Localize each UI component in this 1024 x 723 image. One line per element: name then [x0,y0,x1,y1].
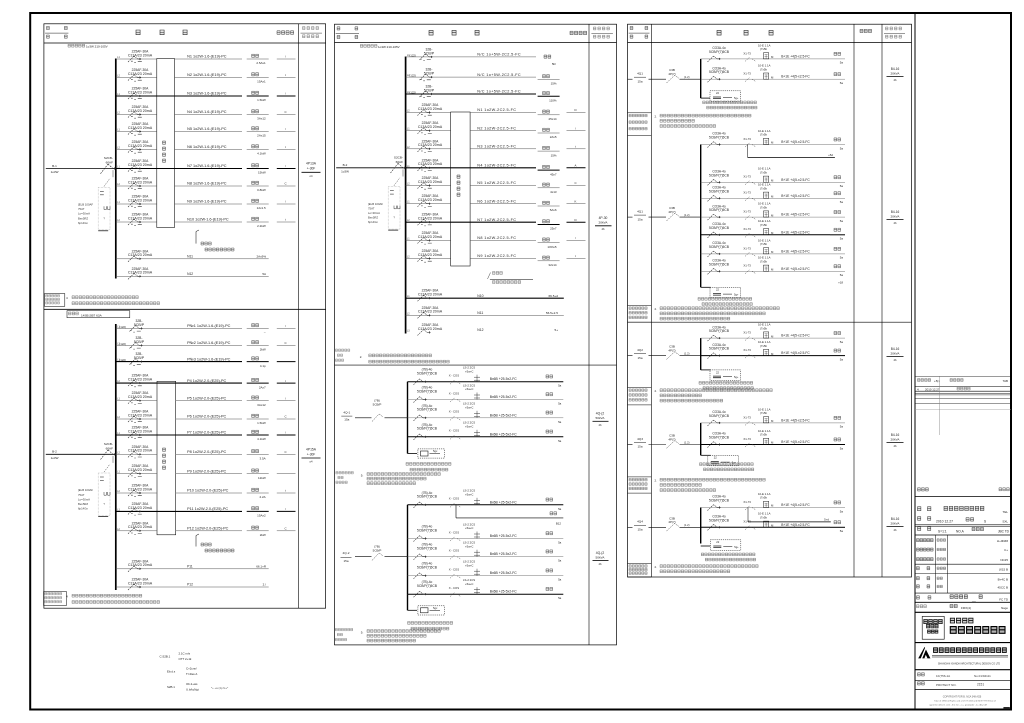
load N6 [247,145,296,156]
svg-text:5a: 5a [840,219,844,223]
panel C load N1 [544,55,556,66]
svg-text:C13A/23 20mA: C13A/23 20mA [128,413,153,417]
load N9 [247,199,296,210]
svg-text:5a: 5a [558,559,562,563]
svg-text:(7x5b: (7x5b [760,67,767,71]
svg-text:C13A/23 20mA: C13A/23 20mA [418,162,443,166]
svg-text:U.b/kcNgt: U.b/kcNgt [186,688,199,692]
panel B wire spec P11 [187,507,228,511]
panel B wire spec P10 [187,489,229,493]
panel A feeder [46,164,116,174]
svg-text:2Ax5: 2Ax5 [550,135,557,139]
svg-text:B+1E +4(5-x2.5-FC: B+1E +4(5-x2.5-FC [781,213,810,217]
svg-text:4x13: 4x13 [550,190,557,194]
svg-text:S2CB-: S2CB- [104,156,113,160]
svg-text:(7x5b: (7x5b [760,242,767,246]
panel C branch N8 wire [406,183,536,186]
svg-text:+5a+C: +5a+C [465,424,473,428]
svg-text:N1 1o2W-1.6-(E19)-PC: N1 1o2W-1.6-(E19)-PC [187,55,227,59]
panel B load P11 [247,507,296,518]
svg-text:C13A/23 20mA: C13A/23 20mA [418,180,443,184]
panel D s2 motor branch 5 [701,219,845,240]
panel D section3 bus [700,338,702,370]
panel B wire spec P4 [187,379,226,383]
svg-text:(122): (122) [409,74,416,78]
svg-text:5g+: 5g+ [734,96,739,100]
svg-text:5a: 5a [840,509,844,513]
title block column divider [914,13,916,710]
panel B breaker P3 [119,352,145,365]
svg-text:B+4C B: B+4C B [998,577,1008,581]
svg-text:(7x5b: (7x5b [760,496,767,500]
svg-text:2.5Ax1: 2.5Ax1 [256,61,266,65]
svg-text:(7x5b: (7x5b [760,433,767,437]
panel B wire spec P5 [187,396,226,400]
title block signature table [915,535,1011,612]
svg-text:5CB/P(7)5CB: 5CB/P(7)5CB [709,70,730,74]
panel C wire spec N11 [477,236,516,240]
svg-text:N11: N11 [187,255,193,259]
svg-text:5a: 5a [840,61,844,65]
svg-text:C13A/23 20mA: C13A/23 20mA [128,126,153,130]
panel D s5 motor branch 1 [701,492,845,522]
panel C load N5 [538,126,586,139]
project number rows [915,673,1011,710]
svg-text:60AF: 60AF [106,447,114,451]
svg-text:4b: 4b [602,227,605,231]
svg-text:B4-16: B4-16 [891,347,900,351]
svg-text:5CB/P(7)5CB: 5CB/P(7)5CB [709,173,730,177]
svg-text:S: S [984,519,986,523]
svg-text:C13A/23 20mA: C13A/23 20mA [128,216,153,220]
panel D s2 motor branch 2 [701,167,845,188]
panel C wire spec N9 [477,199,516,203]
svg-text:66.5+d: 66.5+d [548,294,558,298]
panel B load P12 [247,526,296,537]
svg-text:N/C 1o+5W-2C2.5-FC: N/C 1o+5W-2C2.5-FC [477,53,521,57]
panel D s2 transformer sub-branch [698,287,752,305]
svg-text:5g+: 5g+ [734,292,739,296]
panel B ELB chain [78,456,113,517]
svg-text:N6 1o2W-2C2.5-FC: N6 1o2W-2C2.5-FC [477,199,516,203]
svg-text:S2CB-: S2CB- [394,156,403,160]
svg-text:1F(756-1A: 1F(756-1A [936,674,950,678]
svg-text:C+2cns!: C+2cns! [186,667,197,671]
svg-text:X1-73: X1-73 [743,264,751,268]
svg-text:X1-73: X1-73 [743,331,751,335]
panel B branch P4 wire [116,380,242,383]
title block revision table [915,376,1011,435]
panel B branch P2 wire [116,342,242,345]
svg-text:N7 1o2W-1.6-(E19)-PC: N7 1o2W-1.6-(E19)-PC [187,164,227,168]
panel D s3 rating [887,347,904,362]
svg-text:4Q3: 4Q3 [637,437,643,441]
svg-text:A: A [575,164,577,168]
panel B neutral-protect box [157,381,176,535]
svg-text:5CB/P: 5CB/P [424,72,435,76]
svg-text:22: 22 [716,91,719,95]
panel C motor branch M4 [408,421,564,443]
panel D header [628,26,912,42]
panel D s1 motor branch 2 [701,64,845,85]
svg-text:4Q-(2: 4Q-(2 [596,412,605,416]
panel B breaker P11 [128,502,153,515]
panel B breaker P2 [119,336,145,349]
panel D s5 motor branch 2 [701,512,845,533]
panel C breaker N4 [418,103,443,116]
svg-text:5a: 5a [558,541,562,545]
svg-text:5CB/P: 5CB/P [373,403,382,407]
svg-text:C13A/23 20mA: C13A/23 20mA [128,525,153,529]
svg-text:5b/: 5b/ [552,62,556,66]
svg-text:C13A/23 20mA: C13A/23 20mA [128,90,153,94]
svg-text:4P15A: 4P15A [306,447,317,451]
svg-text:5:: 5: [361,474,364,478]
svg-text:X - COS: X - COS [449,497,460,501]
svg-text:C: C [574,181,576,185]
panel B branch P6 wire [116,416,242,419]
panel C breaker N10 [418,213,443,226]
svg-text:B-2: B-2 [52,450,57,454]
svg-text:+5a+C: +5a+C [465,405,473,409]
svg-text:C13A/23 20mA: C13A/23 20mA [128,144,153,148]
load N4 [247,110,296,121]
svg-text:JBC TD: JBC TD [998,529,1010,533]
svg-text:(7x5b: (7x5b [760,47,767,51]
panel D s5 feeder 4Q4 [628,516,701,531]
svg-text:5CB/P(7)5CB: 5CB/P(7)5CB [709,436,730,440]
svg-text:C: C [284,341,286,345]
panel C 4Q-2 feeder [341,544,408,563]
panel B breaker P12 [128,521,153,534]
svg-text:X - COS: X - COS [449,391,460,395]
svg-text:15Ax2: 15Ax2 [257,514,266,518]
svg-text:B+1E +4(5-x2.5-FC: B+1E +4(5-x2.5-FC [781,75,810,79]
svg-text:6p14Gn: 6p14Gn [368,220,378,224]
svg-text:OTT 2+1k: OTT 2+1k [179,657,192,661]
breaker N4 [128,105,153,118]
svg-text:(7x5b: (7x5b [760,133,767,137]
svg-text:15a: 15a [637,528,642,532]
svg-text:5CB/P(7)5CB: 5CB/P(7)5CB [709,499,730,503]
svg-text:N5 1o2W-1.6-(E19)-PC: N5 1o2W-1.6-(E19)-PC [187,127,227,131]
svg-text:22: 22 [716,370,719,374]
svg-text:B4-16: B4-16 [891,433,900,437]
svg-text:20kVA: 20kVA [891,521,901,525]
svg-text:2Ax7: 2Ax7 [259,385,266,389]
svg-text:20kVA: 20kVA [891,351,901,355]
svg-text:20kVA: 20kVA [599,221,609,225]
svg-text:SXL: SXL [1002,519,1008,523]
panel C 4Q-2 branch M1 with spare drop [408,489,564,526]
panel B breaker P1 [119,319,145,332]
svg-text:4Q2: 4Q2 [637,348,643,352]
svg-text:S2B.1: S2B.1 [167,685,175,689]
panel A notes [45,294,160,307]
svg-text:2.2A: 2.2A [260,495,266,499]
panel B wire spec P1 [187,324,231,328]
wire spec N2 [187,73,227,77]
panel B load P10 [247,488,296,499]
svg-text:C13A/23 20mA: C13A/23 20mA [128,253,153,257]
branch circuit N2 wire [116,75,242,78]
svg-text:X1-73: X1-73 [743,210,751,214]
svg-text:N/C 1o+5W-2C2.5-FC: N/C 1o+5W-2C2.5-FC [477,73,521,77]
svg-text:5CB/P(7)5CB: 5CB/P(7)5CB [417,408,438,412]
svg-text:50kVA: 50kVA [596,555,606,559]
svg-text:[ELB 100AF: [ELB 100AF [78,203,93,207]
wire spec N6 [187,145,227,149]
svg-text:22: 22 [714,456,717,460]
panel D s4 notes [628,477,766,493]
svg-text:22: 22 [716,540,719,544]
svg-text:+5a+C: +5a+C [465,544,473,548]
panel A spare circuits [116,249,269,279]
load N2 [247,73,296,84]
svg-text:(7x5b: (7x5b [760,260,767,264]
panel D s2 feeder 4Q1b [628,206,701,221]
svg-text:+5a+C: +5a+C [465,369,473,373]
panel C wire spec N4 [477,108,516,112]
panel C ELB chain [368,169,403,230]
panel B wire spec P9 [187,469,226,473]
svg-text:5a: 5a [840,529,844,533]
svg-text:--: -- [264,331,266,335]
title block project row [915,488,1011,535]
panel C motor branch M3 [408,402,564,424]
svg-text:C13A/23 20mA: C13A/23 20mA [418,235,443,239]
svg-text:N11: N11 [477,311,483,315]
panel C load N10 [538,218,586,231]
svg-text:32x14: 32x14 [548,263,557,267]
svg-text:+5a+C: +5a+C [465,526,473,530]
svg-text:C13A/23 20mA: C13A/23 20mA [128,72,153,76]
panel B breaker P6 [128,410,153,423]
svg-text:N10: N10 [477,294,483,298]
svg-text:C13A/23 20mA: C13A/23 20mA [418,293,443,297]
panel C 4Q-2 motor branch M3 [408,541,564,563]
branch circuit N10 wire [116,219,242,222]
panel C wire spec N3 [477,90,521,94]
panel C breaker N5 [418,121,443,134]
svg-text:5Ax6: 5Ax6 [550,208,557,212]
panel D s3 motor branch 1 [701,323,845,344]
svg-text:X1-73: X1-73 [743,227,751,231]
panel C branch N9 wire [406,201,536,204]
load N5 [247,127,296,138]
svg-text:Ob.2+ws: Ob.2+ws [186,682,198,686]
svg-text:1.5kW: 1.5kW [257,421,266,425]
svg-text:5CB/P(7)5CB: 5CB/P(7)5CB [709,245,730,249]
svg-text:C13A/23 20mA: C13A/23 20mA [418,198,443,202]
svg-text:5+d: 5+d [824,517,829,521]
svg-text:N12: N12 [477,328,483,332]
load N7 [247,164,296,175]
svg-text:Take of 1984 at Rights and a l: Take of 1984 at Rights and a left 75 484… [934,700,996,703]
panel A spare callout [196,230,234,251]
panel D s3 feeder 4Q2 [628,345,701,360]
panel D s1 rating [887,67,904,82]
svg-text:C: C [284,415,286,419]
panel C branch N10 wire [406,219,536,222]
panel D s4 rating [887,433,904,448]
svg-text:C13A/23 20mA: C13A/23 20mA [418,327,443,331]
svg-text:P7 1o2W-2.0-(E25)-PC: P7 1o2W-2.0-(E25)-PC [187,431,226,435]
svg-text:(122): (122) [119,325,126,329]
panel C wire spec N6 [477,145,516,149]
svg-text:Bex5RZ: Bex5RZ [78,216,88,220]
svg-text:5a: 5a [840,237,844,241]
branch circuit N9 wire [116,201,242,204]
svg-text:o4: o4 [310,460,313,464]
svg-text:Bex5RZ: Bex5RZ [78,502,88,506]
panel B board rating [302,447,321,463]
svg-text:X1-73: X1-73 [743,72,751,76]
svg-text:C13A/23 20mA: C13A/23 20mA [128,53,153,57]
panel D s4 motor branch 2 [701,429,845,450]
svg-text:4.1p: 4.1p [260,364,266,368]
svg-text:X1-73: X1-73 [743,137,751,141]
svg-text:1o3W 210-105V: 1o3W 210-105V [378,45,400,49]
svg-text:5g+: 5g+ [734,375,739,379]
svg-text:3.5A: 3.5A [260,457,266,461]
svg-text:5a: 5a [840,425,844,429]
svg-text:N/C 1o+5W-2C2.5-FC: N/C 1o+5W-2C2.5-FC [477,90,521,94]
panel D s3 transformer sub-branch [699,370,753,390]
breaker N2 [128,68,153,81]
svg-text:(1.2): (1.2) [684,523,690,527]
svg-text:N6 1o2W-1.6-(E19)-PC: N6 1o2W-1.6-(E19)-PC [187,145,227,149]
panel D s3 notes [628,387,773,405]
svg-text:5CB/P(7)5CB: 5CB/P(7)5CB [417,495,438,499]
panel C source note [360,45,399,49]
svg-text:B4-16: B4-16 [891,210,900,214]
panel C load N9 [538,199,586,212]
svg-text:D: D [574,218,576,222]
svg-text:X - COS: X - COS [449,374,460,378]
svg-text:o4: o4 [310,174,313,178]
svg-text:5CB/P(7)5CB: 5CB/P(7)5CB [417,566,438,570]
panel B notes [44,592,160,606]
svg-text:5CB/P(7)5CB: 5CB/P(7)5CB [709,189,730,193]
svg-text:Lo=30mA: Lo=30mA [368,211,380,215]
panel B wire spec P7 [187,431,226,435]
svg-text:X1-73: X1-73 [743,246,751,250]
svg-text:5a: 5a [558,384,562,388]
svg-text:S=1:1: S=1:1 [938,529,947,533]
svg-text:C13A/23 20mA: C13A/23 20mA [128,506,153,510]
svg-text:B+1E +4(5-x2.5-FC: B+1E +4(5-x2.5-FC [781,503,810,507]
panel C spare circuits [406,289,564,336]
svg-text:+5d: +5d [828,153,833,157]
svg-text:C: C [284,450,286,454]
svg-text:4b: 4b [599,423,602,427]
panel D s4 feeder 4Q3 [628,434,701,449]
panel D s2 motor branch 6 [701,238,845,259]
svg-text:X1-73: X1-73 [743,500,751,504]
svg-text:X - COS: X - COS [449,568,460,572]
svg-text:5+: 5+ [554,328,558,332]
svg-text:5CB/P(7)5CB: 5CB/P(7)5CB [709,347,730,351]
svg-text:4.1kW: 4.1kW [257,152,266,156]
shanghai xiandai logo [915,647,1011,670]
panel D s4 motor branch 1 [701,407,845,428]
panel B breaker P7 [128,426,153,439]
svg-text:C13A/23 20mA: C13A/23 20mA [128,109,153,113]
svg-text:(1.2): (1.2) [684,440,690,444]
legend [160,652,230,692]
panel D s5 transformer sub-branch [701,540,756,561]
svg-text:4.1kW: 4.1kW [257,437,266,441]
panel A box 14SB [44,24,326,310]
svg-text:X1-73: X1-73 [743,191,751,195]
svg-text:+5a+C: +5a+C [465,387,473,391]
svg-text:[ELB 100AF: [ELB 100AF [78,488,93,492]
svg-text:B+1E +4(5-x2.5-FC: B+1E +4(5-x2.5-FC [781,440,810,444]
svg-text:C13A/23 20mA: C13A/23 20mA [128,378,153,382]
panel C 4Q-2 motor branch M4 [408,560,564,582]
svg-text:12x1.5: 12x1.5 [257,206,266,210]
svg-text:20kVA: 20kVA [891,437,901,441]
panel B branch P5 wire [116,398,242,401]
svg-text:C13A/23 20mA: C13A/23 20mA [128,395,153,399]
svg-text:C13A/23 20mA: C13A/23 20mA [128,198,153,202]
svg-text:+-30F: +-30F [307,167,315,171]
svg-text:45x7: 45x7 [550,172,557,176]
svg-text:2151: 2151 [977,683,984,687]
svg-text:B+1E +4(5-x2.5-FC: B+1E +4(5-x2.5-FC [781,249,810,253]
svg-text:5a: 5a [558,507,562,511]
svg-text:2Ax15: 2Ax15 [257,134,266,138]
svg-text:TAB: TAB [1003,379,1008,383]
panel D s1 motor branch 1 [701,43,845,64]
panel C motor branch M1 [408,366,564,388]
load N8 [247,181,296,192]
panel C breaker N9 [418,194,443,207]
panel C branch N3 wire [406,91,536,94]
panel C load N11 [538,236,586,249]
svg-text:Eb:d.s: Eb:d.s [167,670,176,674]
svg-text:5a: 5a [558,439,562,443]
svg-text:(7x5b: (7x5b [760,411,767,415]
svg-text:5CB/P(7)5CB: 5CB/P(7)5CB [709,136,730,140]
panel D s2 motor branch 7 [701,256,845,277]
svg-text:Bx6B +25-5x2-FC: Bx6B +25-5x2-FC [490,500,518,504]
panel A ELB chain [78,170,113,231]
svg-text:P11: P11 [187,565,193,569]
svg-text:N4 1o2W-2C2.5-FC: N4 1o2W-2C2.5-FC [477,164,516,168]
svg-text:2kW: 2kW [260,348,266,352]
svg-text:P12: P12 [187,583,193,587]
svg-text:P11 1o2W-2.0-(E25)-PC: P11 1o2W-2.0-(E25)-PC [187,507,228,511]
panel A source note [68,44,108,48]
svg-text:__: __ [971,597,976,601]
panel D s2 rating [887,210,904,225]
svg-text:C:S2B.1: C:S2B.1 [160,655,171,659]
svg-text:20kVA: 20kVA [891,214,901,218]
svg-text:2.2kW: 2.2kW [257,224,266,228]
svg-text:12kW: 12kW [258,476,266,480]
panel B main bus [115,324,117,590]
svg-text:5gx: 5gx [433,449,438,453]
svg-text:B+1E +4(5-x2.5-FC: B+1E +4(5-x2.5-FC [781,230,810,234]
svg-text:4Q1: 4Q1 [637,72,643,76]
panel C wire spec N2 [477,73,521,77]
svg-text:4P-30: 4P-30 [599,216,608,220]
breaker N6 [128,140,153,153]
svg-text:4b: 4b [894,444,897,448]
svg-text:X1-73: X1-73 [743,520,751,524]
